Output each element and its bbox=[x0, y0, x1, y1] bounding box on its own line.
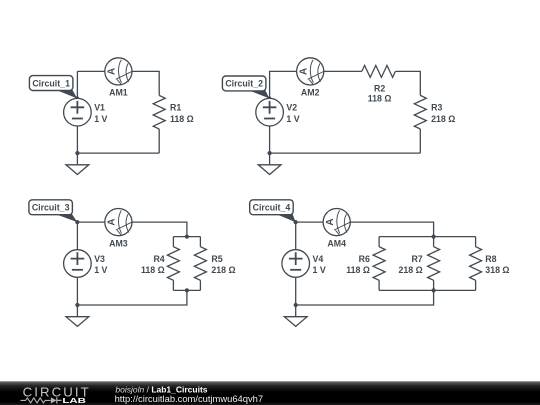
wire bottom circuit 3 bbox=[77, 290, 186, 305]
resistor R2 bbox=[362, 65, 396, 77]
svg-text:1 V: 1 V bbox=[286, 114, 299, 124]
net flag Circuit_2 bbox=[222, 76, 271, 101]
net flag Circuit_3 bbox=[29, 200, 80, 224]
voltage source V4 bbox=[282, 250, 310, 278]
resistor R5 bbox=[194, 247, 206, 281]
junction bbox=[185, 235, 189, 239]
wire bottom circuit 4 bbox=[296, 290, 434, 305]
svg-text:V3: V3 bbox=[94, 254, 105, 264]
svg-text:Circuit_4: Circuit_4 bbox=[253, 202, 291, 212]
wire bottom circuit 1 bbox=[77, 129, 159, 153]
voltage source V2 bbox=[256, 98, 284, 126]
label V1 value 1 V bbox=[94, 103, 107, 124]
resistor R4 bbox=[167, 247, 179, 281]
label R6 value 118 &#937; bbox=[346, 254, 370, 275]
svg-text:R2: R2 bbox=[374, 83, 385, 93]
svg-text:318 Ω: 318 Ω bbox=[485, 265, 509, 275]
svg-text:LAB: LAB bbox=[62, 396, 86, 405]
wire bbox=[295, 277, 297, 305]
svg-text:Circuit_1: Circuit_1 bbox=[32, 78, 70, 88]
svg-text:R7: R7 bbox=[411, 254, 422, 264]
label R4 value 118 &#937; bbox=[141, 254, 165, 275]
svg-text:118 Ω: 118 Ω bbox=[346, 265, 370, 275]
svg-text:1 V: 1 V bbox=[94, 265, 107, 275]
wire parallel bars circuit 3 bbox=[173, 237, 200, 291]
wire bbox=[269, 126, 271, 153]
svg-text:218 Ω: 218 Ω bbox=[211, 265, 235, 275]
wire top circuit 3 bbox=[77, 222, 186, 250]
junction bbox=[75, 303, 79, 307]
label V2 value 1 V bbox=[286, 103, 299, 124]
junction bbox=[432, 235, 436, 239]
resistor R3 bbox=[414, 95, 426, 129]
label R2 value 118 &#937; bbox=[368, 83, 392, 103]
junction bbox=[268, 151, 272, 155]
svg-text:R4: R4 bbox=[153, 254, 164, 264]
ammeter AM2 bbox=[297, 58, 325, 85]
ground bbox=[66, 153, 89, 174]
svg-text:Circuit_2: Circuit_2 bbox=[225, 79, 263, 89]
ammeter AM3 bbox=[105, 209, 133, 236]
svg-text:118 Ω: 118 Ω bbox=[170, 114, 194, 124]
svg-text:Circuit_3: Circuit_3 bbox=[32, 202, 70, 212]
junction bbox=[294, 303, 298, 307]
svg-text:1 V: 1 V bbox=[313, 265, 326, 275]
svg-text:R3: R3 bbox=[431, 103, 442, 113]
ammeter AM1 bbox=[105, 58, 133, 85]
label R8 value 318 &#937; bbox=[485, 254, 509, 275]
svg-text:A: A bbox=[325, 219, 336, 226]
label R5 value 218 &#937; bbox=[211, 254, 235, 275]
resistor R1 bbox=[153, 95, 165, 129]
svg-text:218 Ω: 218 Ω bbox=[431, 114, 455, 124]
svg-text:V1: V1 bbox=[94, 103, 105, 113]
net flag Circuit_1 bbox=[29, 76, 79, 101]
junction bbox=[75, 151, 79, 155]
label R7 value 218 &#937; bbox=[399, 254, 423, 275]
ground bbox=[258, 153, 281, 174]
junction bbox=[185, 288, 189, 292]
svg-text:A: A bbox=[107, 219, 118, 226]
svg-text:AM1: AM1 bbox=[109, 88, 128, 98]
resistor R6 bbox=[373, 247, 385, 281]
wire parallel bars circuit 4 bbox=[379, 237, 476, 291]
voltage source V3 bbox=[64, 250, 92, 278]
wire top circuit 2 bbox=[270, 71, 421, 98]
svg-text:AM4: AM4 bbox=[327, 238, 346, 248]
svg-text:R1: R1 bbox=[170, 103, 181, 113]
svg-text:R6: R6 bbox=[359, 254, 370, 264]
svg-text:218 Ω: 218 Ω bbox=[399, 265, 423, 275]
svg-text:118 Ω: 118 Ω bbox=[141, 265, 165, 275]
wire top circuit 1 bbox=[77, 71, 159, 98]
svg-text:1 V: 1 V bbox=[94, 114, 107, 124]
wire bottom circuit 2 bbox=[270, 129, 421, 153]
ground bbox=[284, 305, 307, 326]
label R1 value 118 &#937; bbox=[170, 103, 194, 124]
ammeter AM4 bbox=[323, 209, 351, 236]
wire bbox=[76, 277, 78, 305]
svg-text:AM2: AM2 bbox=[301, 88, 320, 98]
svg-text:R5: R5 bbox=[211, 254, 222, 264]
net flag Circuit_4 bbox=[250, 200, 298, 224]
resistor R8 bbox=[470, 247, 482, 281]
label V3 value 1 V bbox=[94, 254, 107, 275]
svg-text:R8: R8 bbox=[485, 254, 496, 264]
svg-text:118 Ω: 118 Ω bbox=[368, 94, 392, 104]
label V4 value 1 V bbox=[313, 254, 326, 275]
svg-text:A: A bbox=[107, 68, 118, 75]
junction bbox=[432, 288, 436, 292]
resistor R7 bbox=[428, 247, 440, 281]
wire top circuit 4 bbox=[296, 222, 434, 250]
svg-text:A: A bbox=[298, 68, 309, 75]
svg-text:http://circuitlab.com/cutjmwu6: http://circuitlab.com/cutjmwu64qvh7 bbox=[115, 393, 264, 404]
svg-text:AM3: AM3 bbox=[109, 238, 128, 248]
CircuitLab logo bbox=[21, 384, 91, 405]
ground bbox=[66, 305, 89, 326]
voltage source V1 bbox=[64, 98, 92, 126]
svg-text:V4: V4 bbox=[313, 254, 324, 264]
label R3 value 218 &#937; bbox=[431, 103, 455, 124]
wire bbox=[76, 126, 78, 153]
svg-text:V2: V2 bbox=[286, 103, 297, 113]
